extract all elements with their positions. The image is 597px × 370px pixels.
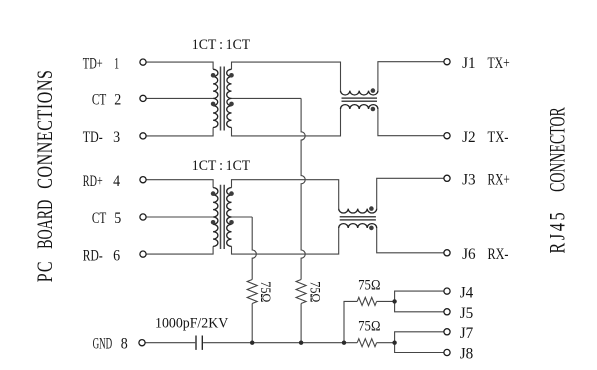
wire T1 secondary bottom to choke L1 lower input [232,109,341,136]
svg-text:RX+: RX+ [488,172,510,189]
choke L1 core [342,98,378,101]
svg-text:GND: GND [93,336,113,353]
svg-text:2: 2 [114,92,121,109]
wire T1 secondary center tap down to R2 (hops over 3 wires) [232,97,302,99]
svg-text:RD-: RD- [83,248,103,265]
svg-text:J6: J6 [462,246,476,263]
capacitor C1 1000pF/2KV [196,336,202,350]
resistor R3 75ohm horizontal (J4/J5) [357,297,376,305]
svg-text:CT: CT [92,92,107,109]
svg-text:1CT : 1CT: 1CT : 1CT [192,36,251,52]
transformer T1 secondary winding [227,69,232,127]
svg-text:75Ω: 75Ω [358,277,380,293]
wire choke L2 top output to J3 [377,178,444,208]
svg-text:5: 5 [114,211,121,228]
wire TD- row to T1 primary bottom [146,128,213,136]
transformer T2 polarity dots [211,191,234,224]
wire ground rail from capacitor to resistor R4 [203,342,357,344]
svg-text:1CT : 1CT: 1CT : 1CT [192,158,251,174]
transformer T1 polarity dots [211,73,234,106]
svg-text:TD-: TD- [83,129,103,146]
wire RD- row to T2 primary bottom [146,246,213,254]
svg-text:J4: J4 [460,285,474,302]
choke L2 bottom winding [339,224,377,228]
transformer T2 core [221,185,225,249]
svg-text:1: 1 [114,56,119,73]
svg-text:J7: J7 [460,325,474,342]
svg-text:J5: J5 [460,305,474,322]
transformer T2 primary winding [213,188,218,247]
svg-text:6: 6 [113,248,120,265]
junction dots on ground rail and splits [250,341,254,345]
wire split to J7 [395,332,444,343]
transformer T1 core [221,67,225,131]
wire split to J5 [395,301,444,311]
wire T2 secondary bottom to choke L2 lower input [232,228,339,254]
wire split to J8 [395,343,444,353]
svg-text:J1: J1 [462,55,476,72]
resistor R4 75ohm horizontal (J7/J8) [357,339,376,347]
resistor R2 75ohm vertical [296,280,306,304]
svg-text:CONNECTIONS: CONNECTIONS [34,70,58,189]
svg-text:RJ45: RJ45 [546,212,570,253]
svg-text:BOARD: BOARD [34,200,58,249]
svg-text:J2: J2 [462,129,476,146]
choke L1 top winding [341,91,378,95]
wire TD+ row to T1 primary top [146,62,213,69]
wire CT row to T1 primary center tap [146,97,213,99]
svg-text:3: 3 [113,129,120,146]
svg-text:TX+: TX+ [488,55,510,72]
svg-text:TD+: TD+ [83,56,103,73]
wire T2 secondary top to choke L2 input [232,180,339,209]
transformer T1 primary winding [213,69,218,127]
wire GND row to capacitor [145,342,195,344]
choke L1 polarity dots [371,88,376,111]
choke L1 bottom winding [341,105,378,109]
wire CT row to T2 primary center tap [146,216,213,218]
svg-text:RD+: RD+ [83,173,103,190]
choke L2 core [340,217,376,220]
svg-text:75Ω: 75Ω [358,318,380,334]
wire RD+ row to T2 primary top [146,180,213,188]
wire choke L2 lower output to J6 [377,228,444,253]
svg-text:75Ω: 75Ω [307,281,323,302]
svg-text:CT: CT [92,211,107,228]
choke L2 polarity dots [369,206,374,230]
choke L2 top winding [339,209,377,213]
terminal pins: RJ45 side [444,59,450,65]
svg-text:RX-: RX- [488,246,509,263]
wire T1 secondary top to CM choke L1 input [232,62,341,91]
wire choke L1 lower output to J2 [378,109,444,136]
svg-text:1000pF/2KV: 1000pF/2KV [155,315,229,331]
svg-text:75Ω: 75Ω [258,281,274,302]
svg-text:8: 8 [121,336,128,353]
svg-text:PC: PC [34,262,58,283]
transformer T2 secondary winding [227,188,232,247]
wire T2 secondary center tap down to R1 (hop over RD- wire) [232,216,253,218]
svg-text:J3: J3 [462,172,476,189]
resistor R1 75ohm vertical [247,280,257,304]
wire rail tap up to resistor R3 [344,301,357,342]
svg-text:J8: J8 [460,346,474,363]
svg-text:CONNECTOR: CONNECTOR [546,107,570,192]
terminal pins: left PC-board pads [140,59,146,65]
wire choke L1 top output to J1 [378,62,444,91]
svg-text:4: 4 [113,173,120,190]
svg-text:TX-: TX- [488,129,509,146]
wire split to J4 [395,291,444,301]
